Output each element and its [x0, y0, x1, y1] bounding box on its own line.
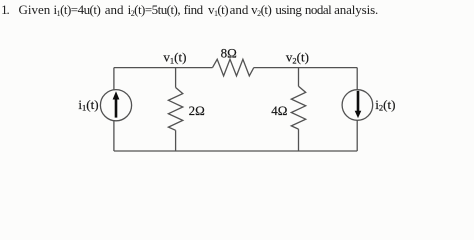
- svg-text:2Ω: 2Ω: [189, 103, 205, 118]
- svg-text:v2(t): v2(t): [286, 50, 309, 66]
- svg-text:4Ω: 4Ω: [271, 103, 287, 118]
- wire top-right segment (8ohm to node v2 to right corner): [254, 67, 357, 69]
- wire 2ohm branch top lead: [175, 68, 177, 88]
- resistor R 2ohm zigzag: [168, 88, 182, 131]
- wire left side bottom: [113, 120, 115, 151]
- wire bottom: [114, 150, 357, 152]
- wire 4ohm branch top lead: [298, 68, 300, 87]
- svg-text:8Ω: 8Ω: [221, 45, 237, 60]
- wire right side top: [356, 68, 358, 90]
- svg-text:v1(t): v1(t): [163, 50, 186, 66]
- wire 2ohm branch bottom lead: [175, 130, 177, 151]
- wire left side top: [113, 68, 115, 91]
- svg-text:i1(t): i1(t): [78, 97, 98, 113]
- current source I2 arrow (down): [355, 91, 362, 118]
- resistor R 8ohm zigzag: [213, 59, 254, 76]
- svg-text:i2(t): i2(t): [375, 97, 395, 113]
- wire top-left segment (node v1 to left): [114, 67, 213, 69]
- current source I1 circle: [100, 90, 131, 121]
- current source I1 arrow (up): [113, 91, 120, 117]
- wire 4ohm branch bottom lead: [298, 129, 300, 151]
- wire right side bottom: [356, 120, 358, 151]
- resistor R 4ohm zigzag: [291, 86, 305, 129]
- problem statement text: [0, 3, 474, 21]
- current source I2 circle: [342, 90, 373, 121]
